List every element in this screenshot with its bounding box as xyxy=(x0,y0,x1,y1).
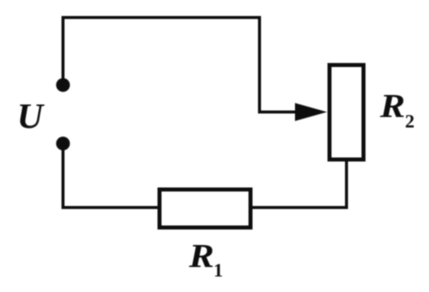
svg-text:R: R xyxy=(379,87,405,125)
wire bottom left xyxy=(63,144,158,208)
wire bottom right xyxy=(252,160,347,208)
svg-text:R: R xyxy=(188,237,214,275)
resistor R2 xyxy=(330,65,364,160)
wiper arrow into R2 xyxy=(295,103,327,121)
terminal dot lower xyxy=(56,137,70,151)
svg-text:U: U xyxy=(17,96,45,136)
resistor R1 xyxy=(160,190,251,228)
terminal dot upper xyxy=(56,78,70,92)
svg-text:1: 1 xyxy=(214,261,224,282)
svg-text:2: 2 xyxy=(405,112,415,133)
wire top horizontal xyxy=(63,18,301,113)
